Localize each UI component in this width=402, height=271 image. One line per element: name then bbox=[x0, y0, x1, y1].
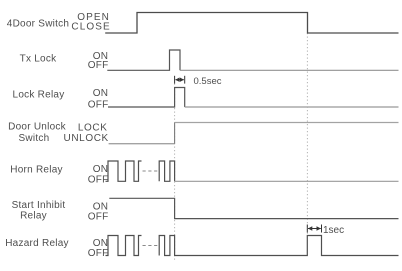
svg-text:Relay: Relay bbox=[20, 211, 47, 222]
wire: Horn Relay continuation dashes bbox=[143, 170, 159, 172]
wire: Tx Lock OFF continuation bbox=[180, 69, 399, 71]
wire: 4Door Switch trace bbox=[105, 13, 398, 34]
wire: Lock Relay trace with 0.5sec pulse bbox=[108, 88, 185, 108]
svg-text:Start Inhibit: Start Inhibit bbox=[12, 200, 66, 211]
svg-text:Horn Relay: Horn Relay bbox=[10, 165, 63, 176]
wire: Horn Relay OFF continuation bbox=[175, 180, 399, 182]
annotation: 0.5sec pulse width ticks and arrows bbox=[175, 76, 185, 84]
svg-text:LOCK: LOCK bbox=[78, 122, 108, 133]
svg-text:1sec: 1sec bbox=[323, 225, 344, 236]
svg-text:ON: ON bbox=[93, 88, 109, 99]
svg-text:OFF: OFF bbox=[88, 60, 109, 71]
wire: Hazard Relay pulse train (left) bbox=[106, 236, 142, 256]
wire: Lock Relay OFF continuation bbox=[185, 106, 399, 108]
wire: Hazard Relay pulse train (right) and 1sec pulse bbox=[159, 236, 398, 256]
reference line: dotted vertical at lock event (x=174.6) bbox=[174, 84, 176, 261]
wire: Start Inhibit Relay trace bbox=[109, 198, 398, 218]
svg-text:4Door Switch: 4Door Switch bbox=[7, 18, 69, 29]
svg-text:Hazard Relay: Hazard Relay bbox=[5, 238, 69, 249]
annotation: 1sec pulse width ticks and arrows bbox=[307, 225, 321, 233]
wire: Door Unlock Switch UNLOCK lead bbox=[109, 143, 175, 145]
wire: Door Unlock Switch rising edge bbox=[174, 123, 176, 144]
wire: Tx Lock trace with lock pulse bbox=[107, 50, 180, 70]
svg-text:OFF: OFF bbox=[88, 212, 109, 223]
wire: Door Unlock Switch LOCK continuation bbox=[175, 122, 399, 124]
svg-text:OFF: OFF bbox=[88, 174, 109, 185]
wire: Horn Relay pulse train (left) bbox=[106, 161, 142, 181]
svg-text:0.5sec: 0.5sec bbox=[194, 76, 222, 87]
svg-text:Switch: Switch bbox=[19, 133, 50, 144]
svg-text:UNLOCK: UNLOCK bbox=[64, 133, 109, 144]
wire: Hazard Relay continuation dashes bbox=[143, 245, 159, 247]
svg-text:Door Unlock: Door Unlock bbox=[8, 122, 67, 133]
svg-text:OFF: OFF bbox=[88, 100, 109, 111]
svg-text:OFF: OFF bbox=[88, 248, 109, 259]
svg-text:CLOSE: CLOSE bbox=[71, 22, 110, 33]
reference line: dotted vertical at door-close event (x=307.4) bbox=[306, 33, 308, 236]
svg-text:Lock Relay: Lock Relay bbox=[13, 90, 65, 101]
wire: Horn Relay pulse train (right) bbox=[159, 161, 174, 181]
svg-text:Tx Lock: Tx Lock bbox=[20, 54, 58, 65]
